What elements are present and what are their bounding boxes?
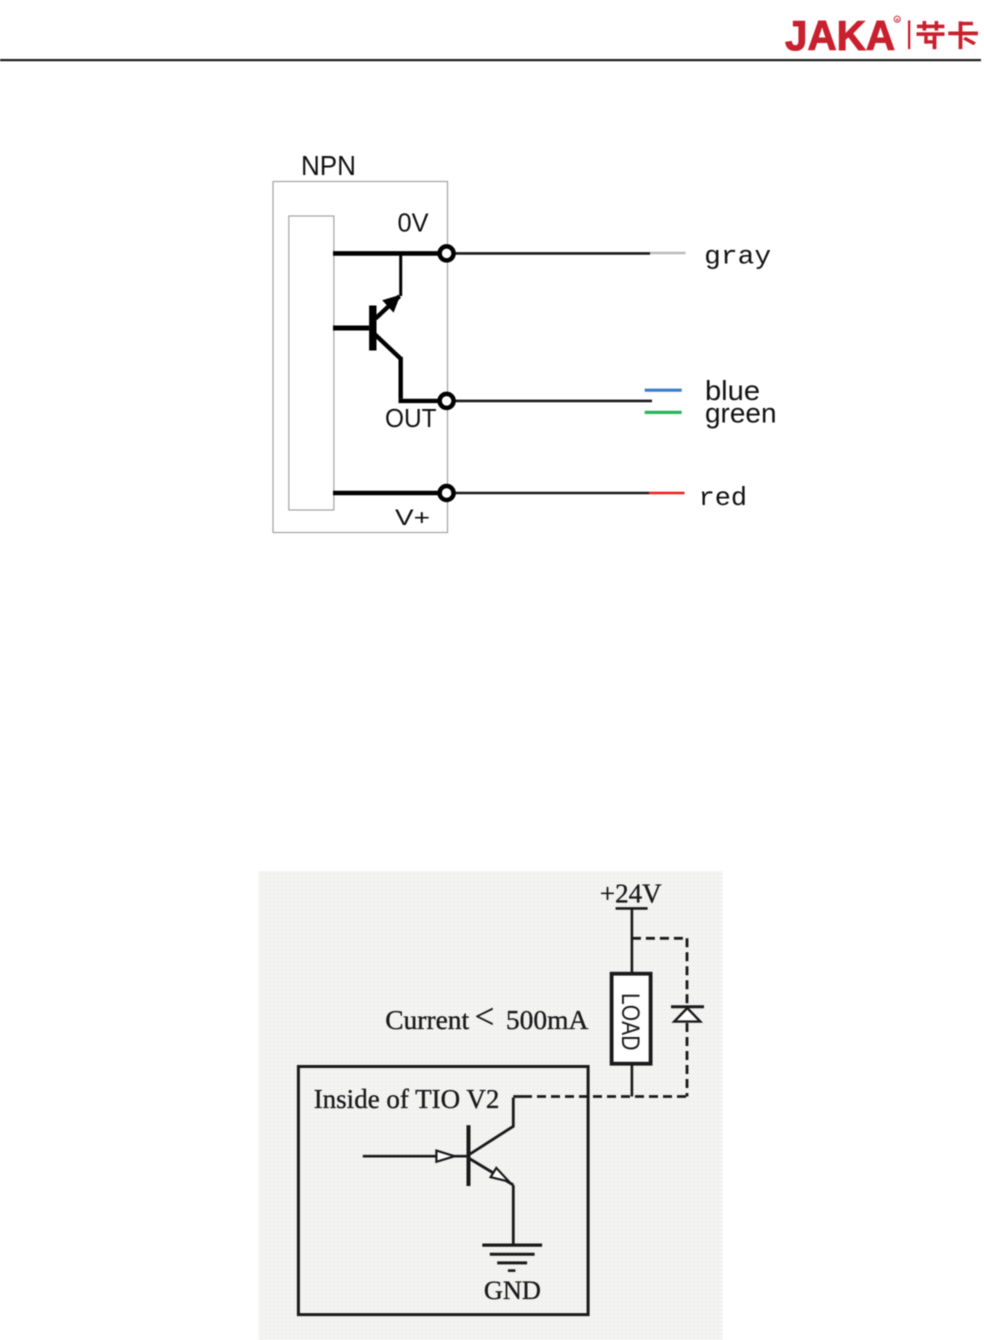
svg-text:Inside of TIO V2: Inside of TIO V2: [314, 1084, 500, 1114]
svg-text:NPN: NPN: [301, 150, 356, 181]
svg-text:gray: gray: [704, 242, 771, 272]
svg-text:0V: 0V: [398, 208, 430, 238]
svg-text:OUT: OUT: [385, 403, 437, 433]
svg-text:<: <: [475, 997, 495, 1036]
svg-text:500mA: 500mA: [506, 1004, 589, 1035]
svg-text:V+: V+: [395, 505, 430, 530]
svg-text:GND: GND: [484, 1276, 541, 1305]
svg-text:Current: Current: [385, 1004, 469, 1035]
svg-text:green: green: [705, 397, 777, 428]
svg-text:+24V: +24V: [600, 879, 662, 909]
svg-text:red: red: [699, 483, 748, 513]
svg-text:LOAD: LOAD: [616, 993, 644, 1051]
svg-text:JAKA: JAKA: [785, 12, 895, 59]
